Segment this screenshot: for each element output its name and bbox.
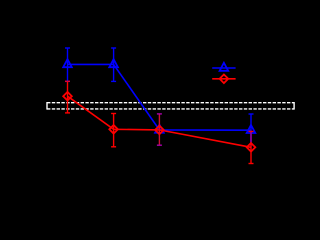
legend blue entry xyxy=(212,67,235,69)
reference band: white dashed rectangle xyxy=(47,102,294,110)
blue series error bar P2 xyxy=(111,48,116,81)
purple overlap segment P4 (blue error over red error) xyxy=(250,132,252,143)
combined magenta error bar P3 (blue+red overlap) xyxy=(157,114,162,145)
blue series error bar P1 xyxy=(65,48,70,81)
blue triangle marker P3 (under red diamond) xyxy=(155,125,164,133)
red series error bar P4 xyxy=(249,131,254,163)
red diamond marker P1 xyxy=(63,92,72,101)
red diamond marker P3 xyxy=(155,126,164,135)
legend red entry xyxy=(212,78,235,80)
blue triangle marker P4 xyxy=(247,125,256,133)
blue series error bar P4 xyxy=(249,114,254,147)
red series error bar P2 xyxy=(111,114,116,147)
red diamond marker P4 xyxy=(247,143,256,152)
red series line xyxy=(68,96,252,147)
blue series line xyxy=(68,64,252,130)
blue triangle marker P2 xyxy=(109,59,118,67)
red diamond marker P2 xyxy=(109,125,118,134)
blue triangle marker P1 xyxy=(63,59,72,67)
red series error bar P1 (top cap blends with blue bottom cap) xyxy=(65,81,70,113)
